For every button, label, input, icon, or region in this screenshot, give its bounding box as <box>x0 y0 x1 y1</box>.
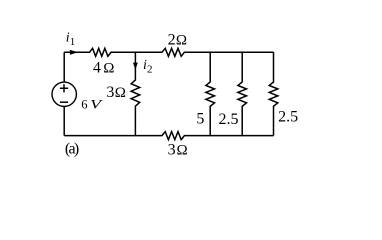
svg-text:Ω: Ω <box>176 33 187 49</box>
svg-text:3: 3 <box>106 84 114 101</box>
svg-text:2.5: 2.5 <box>219 111 239 128</box>
svg-text:2: 2 <box>168 32 176 49</box>
svg-text:3: 3 <box>168 142 176 159</box>
svg-text:5: 5 <box>196 110 204 127</box>
svg-text:Ω: Ω <box>115 85 126 101</box>
svg-text:6: 6 <box>81 98 87 112</box>
svg-text:2: 2 <box>147 63 153 75</box>
svg-text:4: 4 <box>93 59 101 76</box>
svg-text:Ω: Ω <box>176 143 187 159</box>
svg-text:(a): (a) <box>65 140 79 157</box>
svg-text:2.5: 2.5 <box>278 109 298 126</box>
svg-text:1: 1 <box>70 36 76 48</box>
svg-text:Ω: Ω <box>103 60 114 76</box>
